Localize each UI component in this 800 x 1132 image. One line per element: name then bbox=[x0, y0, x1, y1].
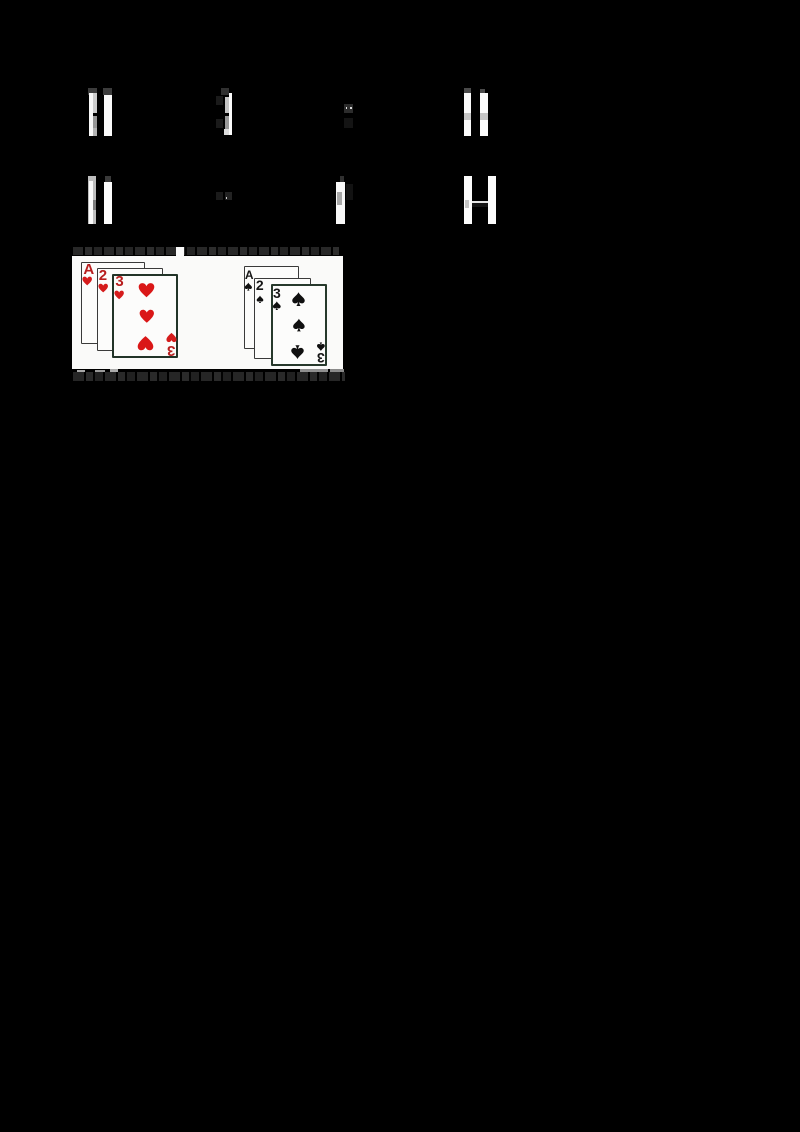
index 3 bbox=[273, 286, 281, 300]
caption line below cards bbox=[73, 372, 345, 381]
strip bottom gray blobs bbox=[77, 370, 85, 373]
equation row 1 fragment 1 bar B bbox=[103, 88, 112, 95]
pip under 2 bbox=[256, 295, 264, 304]
card 2 of spades bbox=[254, 278, 311, 360]
big heart pip 1 bbox=[138, 281, 155, 299]
index A bbox=[83, 262, 94, 277]
bottom-right inverted index bbox=[316, 342, 326, 351]
big heart pip 2 bbox=[139, 307, 155, 325]
caption white block bbox=[176, 247, 184, 256]
big spade pip 3 inverted bbox=[290, 344, 305, 360]
equation row 2 fragment 1 bar B bbox=[105, 176, 111, 183]
pip under A bbox=[244, 282, 253, 291]
equation row 1 fragment 1 bar A bbox=[88, 88, 97, 95]
strip bottom-right gray chunk bbox=[330, 369, 344, 376]
equation row 1 fragment 4 bar B bbox=[480, 89, 485, 95]
caption line above cards bbox=[73, 247, 339, 255]
equation row 2 fragment 4 H-shape bbox=[464, 176, 472, 224]
bottom-right inverted index bbox=[166, 332, 177, 343]
card 3 of hearts (front) bbox=[112, 274, 178, 358]
equation row 1 fragment 2 bbox=[221, 88, 229, 95]
big spade pip 2 bbox=[292, 317, 306, 333]
equation row 2 fragment 1 bar A bbox=[88, 176, 96, 224]
card 2 of hearts bbox=[97, 268, 163, 351]
big heart pip 3 inverted bbox=[137, 334, 154, 352]
pip under 3 bbox=[114, 290, 124, 300]
index 3 bbox=[115, 274, 123, 289]
card 3 of spades (front) bbox=[271, 284, 327, 367]
SVG pip symbols bbox=[0, 0, 1, 1]
pip under 3 bbox=[272, 301, 282, 310]
equation row 1 fragment 3 bbox=[344, 104, 353, 113]
white picture strip bbox=[72, 256, 344, 369]
equation row 2 fragment 2 bbox=[216, 192, 223, 200]
card A of spades bbox=[244, 266, 299, 349]
equation row 1 fragment 4 bar A bbox=[464, 88, 471, 94]
big spade pip 1 bbox=[291, 291, 306, 307]
index 2 bbox=[99, 268, 107, 283]
index 2 bbox=[256, 278, 264, 292]
card A of hearts bbox=[81, 262, 145, 345]
equation row 2 fragment 3 bbox=[340, 176, 345, 182]
pip under 2 bbox=[98, 283, 108, 293]
index A bbox=[245, 269, 254, 281]
pip under A bbox=[82, 276, 92, 286]
